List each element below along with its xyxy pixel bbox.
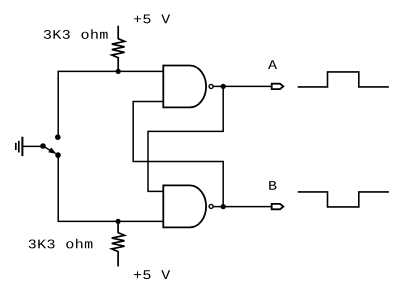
waveform A (positive pulse) (298, 72, 389, 87)
resistor R2 (112, 221, 125, 266)
label "+5 V" top supply (134, 15, 170, 24)
node B output tag (272, 204, 284, 209)
node: U1A output junction (221, 84, 226, 89)
wire: U1A output to tag A (214, 85, 272, 87)
ground (16, 137, 23, 156)
wire: bottom rail from switch lower contact to gate U1B input 2 (58, 155, 163, 221)
label "+5 V" bottom supply (134, 270, 170, 279)
wire: feedback U1A output to U1B input 1 (148, 86, 223, 191)
switch S1 (SPDT pushbutton) (40, 134, 61, 158)
resistor R1 (112, 26, 125, 72)
node: junction R1 / top rail (116, 69, 121, 74)
label "3K3 ohm" for R1 (44, 29, 108, 39)
label "A" (268, 60, 277, 69)
node: U1B output junction (221, 204, 226, 209)
nand gate U1B (163, 185, 213, 227)
label "B" (269, 181, 276, 190)
nand gate U1A (163, 66, 213, 108)
wire: ground to switch pole (22, 145, 43, 147)
label "3K3 ohm" for R2 (29, 239, 93, 249)
wire: feedback U1B output to U1A input 2 (133, 102, 223, 207)
wire: U1B output to tag B (214, 206, 272, 208)
node: junction R2 / bottom rail (116, 219, 121, 224)
node A output tag (272, 84, 284, 89)
wire: top rail from switch corner to gate U1A input 1 (58, 71, 163, 137)
waveform B (negative pulse) (298, 192, 389, 207)
